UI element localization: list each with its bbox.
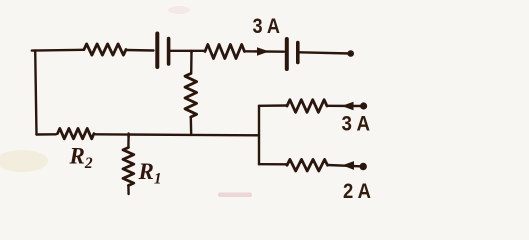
svg-text:3 A: 3 A [342,113,371,136]
wire upper branch right [327,105,361,108]
wire R1 bottom stub [127,186,130,195]
resistor R1 vertical [123,148,134,186]
terminal T1 dot [347,50,354,57]
scan tint patch lower-left [0,150,48,172]
node J2 junction R1 [127,135,129,137]
resistor middle vertical [185,74,197,118]
node J1 junction [190,51,192,53]
resistor R2 [58,128,95,138]
wire capacitor to node J1 [171,50,206,52]
terminal T2 dot [360,102,367,109]
resistor upper-right [287,100,327,113]
arrow current 2A left [344,162,354,169]
wire upper branch left [259,104,287,107]
resistor top-left [84,44,126,55]
wire middle resistor to bottom node [190,117,193,135]
resistor lower-right [287,159,328,171]
capacitor C1 right plate [167,39,171,65]
wire resistor to battery [245,50,285,53]
svg-text:2 A: 2 A [343,180,371,203]
scan pink streak bottom [218,193,252,198]
wire R1 top stub [127,134,130,148]
battery E right plate [296,43,300,63]
terminal T3 dot [360,163,367,170]
battery E left plate [285,39,289,69]
wire bottom-left segment [37,133,57,136]
arrow current 3A right [258,48,268,55]
wire split vertical [258,106,260,164]
wire battery to terminal T1 [300,52,351,53]
svg-text:3 A: 3 A [253,15,281,38]
wire resistor to capacitor C1 [126,49,154,52]
wire lower branch left [259,163,287,166]
wire bottom middle segment [96,134,260,135]
arrow current 3A left [343,102,353,109]
capacitor C1 left plate [155,34,159,68]
wire lower branch right [328,165,361,166]
wire node J1 down [190,51,193,74]
wire left vertical [35,51,36,135]
resistor top-right [205,45,245,59]
wire top-left segment [32,49,84,52]
